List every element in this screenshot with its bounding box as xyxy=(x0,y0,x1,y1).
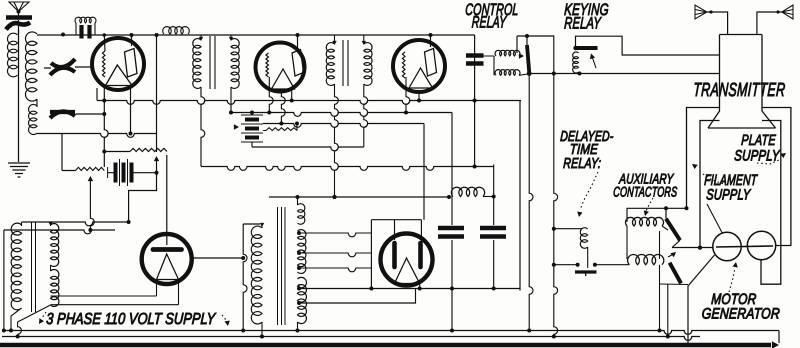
wire T4 sec drop xyxy=(296,322,300,333)
transformer T5 xyxy=(11,222,59,312)
wire grid V2 xyxy=(267,77,273,115)
tube V1 xyxy=(92,33,144,90)
antenna A3 xyxy=(757,5,793,35)
wire V4 plate xyxy=(166,155,168,245)
bus main bar xyxy=(0,341,779,348)
svg-text:SUPPLY: SUPPLY xyxy=(734,147,781,164)
arrow filament xyxy=(692,164,727,185)
svg-text:PLATE: PLATE xyxy=(741,131,777,148)
label AUXILIARY CONTACTORS xyxy=(613,171,678,200)
svg-text:RELAY: RELAY xyxy=(471,12,508,31)
wire T4 tap3 xyxy=(297,266,371,272)
inductor L5 xyxy=(451,187,493,196)
antenna A2 xyxy=(695,5,728,35)
wire cap feed xyxy=(473,35,477,167)
wire T4 pri top xyxy=(243,223,260,225)
wire out rail xyxy=(420,287,520,291)
wire fil V2 right xyxy=(290,89,294,103)
variable capacitor VC2 xyxy=(44,59,92,75)
grid capacitor C1 xyxy=(82,25,90,39)
svg-text:RELAY: RELAY xyxy=(564,13,603,32)
transformer T2 xyxy=(193,35,239,89)
wire V4 fil right xyxy=(51,280,179,305)
wire T4 sec bottom xyxy=(297,284,420,291)
battery B1 xyxy=(108,159,157,186)
tube V4 xyxy=(142,234,192,284)
wire xyxy=(18,30,20,162)
wire keying to tx xyxy=(576,36,720,55)
wire T4 riser xyxy=(297,197,299,205)
wire cap chain A xyxy=(450,113,454,333)
bus ground2 xyxy=(2,337,700,341)
ground xyxy=(8,163,30,177)
tube V2 xyxy=(256,43,305,92)
control relay armature xyxy=(517,34,554,76)
arrow supply right xyxy=(222,315,230,326)
bus supply1 xyxy=(22,222,129,226)
bus L3 bottom xyxy=(37,134,157,138)
wire T5 tap A xyxy=(50,265,52,271)
bus B2 y112 xyxy=(231,113,452,117)
wire MG down xyxy=(688,255,715,345)
arrow aux xyxy=(644,198,653,216)
wire T4 pri drop xyxy=(260,322,264,339)
wire to MG xyxy=(662,226,713,250)
tube V5 xyxy=(381,234,433,286)
motor generator xyxy=(713,231,776,260)
wire aux drop2 xyxy=(660,284,688,339)
svg-text:TRANSMITTER: TRANSMITTER xyxy=(693,79,786,100)
wire plate V3 xyxy=(429,33,433,47)
wire bias y147 xyxy=(252,147,364,151)
delayed time relay xyxy=(554,228,630,276)
label KEYING RELAY xyxy=(564,1,609,32)
tube V3 xyxy=(393,40,445,92)
arrow supply left xyxy=(39,312,46,324)
wire T5 pri bottom xyxy=(9,308,22,333)
label CONTROL RELAY xyxy=(465,0,519,31)
wire keying drop xyxy=(552,74,558,339)
arrow plate xyxy=(757,153,786,164)
transformer T3 xyxy=(326,35,372,86)
svg-text:3 PHASE 110 VOLT SUPPLY: 3 PHASE 110 VOLT SUPPLY xyxy=(46,311,217,329)
svg-text:GENERATOR: GENERATOR xyxy=(701,305,780,321)
resistor R2 xyxy=(104,148,167,151)
wire plate V2 xyxy=(296,33,300,48)
wire bus right end xyxy=(778,331,780,344)
aux contactor coil K2 xyxy=(628,255,664,265)
resistor R3 xyxy=(62,134,104,171)
wire V5 fil xyxy=(297,284,422,306)
plate supply box xyxy=(685,108,791,246)
keying relay xyxy=(573,46,598,73)
variable capacitor VC1 xyxy=(6,18,32,35)
wire plate V1 xyxy=(130,33,134,46)
label TRANSMITTER xyxy=(693,79,786,100)
label MOTOR GENERATOR xyxy=(701,291,780,322)
arrow delayed xyxy=(577,172,598,217)
wire bus drop xyxy=(519,101,521,291)
wire aux drop1 xyxy=(658,265,662,333)
wire T4 tap2 xyxy=(297,251,371,257)
antenna A1 xyxy=(9,2,29,16)
wire V4 fil left xyxy=(51,280,157,297)
wire top rail xyxy=(37,34,475,36)
wire cathode V1 xyxy=(129,88,133,136)
bus B1 y100 xyxy=(97,101,521,105)
wire T3 left bottom xyxy=(333,84,339,199)
wire armature drop xyxy=(527,75,533,333)
transformer T4 xyxy=(251,204,306,325)
resistor R4 xyxy=(263,122,299,131)
rf choke L4 xyxy=(163,27,190,34)
wire bias rail A xyxy=(201,165,494,171)
filament supply box xyxy=(698,121,781,285)
contact blade S1 xyxy=(666,208,680,240)
label PLATE SUPPLY xyxy=(734,131,781,164)
grid resistor R1 xyxy=(75,17,96,35)
wire aux feed xyxy=(627,206,687,222)
battery B2 xyxy=(234,111,263,148)
wire T4 tap1 xyxy=(297,231,371,237)
variable capacitor VC3 xyxy=(50,111,104,118)
wire cap chain B xyxy=(492,165,496,289)
bus B3 y123 xyxy=(263,124,424,128)
inductor L1 xyxy=(7,33,17,77)
label 3 PHASE 110 VOLT SUPPLY xyxy=(46,311,217,329)
wire rect rail xyxy=(269,195,451,199)
wire T3 right bottom xyxy=(364,84,368,147)
capacitor C2 xyxy=(466,56,484,64)
inductor L3 xyxy=(29,99,37,135)
wire grid V3 xyxy=(404,77,410,115)
arrow MG xyxy=(729,262,738,292)
wire fil V3 xyxy=(417,92,421,103)
wire cathode V1 left xyxy=(96,88,98,101)
node rail junction xyxy=(61,33,159,38)
control relay coils xyxy=(475,50,528,75)
contact blade S2 xyxy=(670,263,681,284)
arrow blade xyxy=(668,252,676,257)
label DELAYED-TIME RELAY xyxy=(560,128,614,171)
wire R3 tap xyxy=(88,176,95,232)
wire T2 sec bottom xyxy=(229,87,233,115)
wire V4 out xyxy=(191,224,248,333)
svg-text:SUPPLY: SUPPLY xyxy=(706,186,752,203)
wire fil V2 left xyxy=(279,89,285,126)
svg-text:CONTACTORS: CONTACTORS xyxy=(613,183,678,200)
transmitter box xyxy=(708,35,776,129)
wire supply left xyxy=(2,230,6,333)
capacitor C4 xyxy=(480,228,506,237)
wire T5 sec bottom xyxy=(16,305,51,339)
wire T2 pri bottom xyxy=(201,87,205,167)
bus supply2 xyxy=(4,230,115,234)
aux contactor coil K1 xyxy=(626,217,664,259)
svg-text:RELAY:: RELAY: xyxy=(563,154,602,171)
label FILAMENT SUPPLY xyxy=(704,171,759,203)
wire V5 anode rail xyxy=(369,124,424,291)
bus ground1 xyxy=(2,331,779,335)
wire relay common xyxy=(529,72,719,76)
capacitor C3 xyxy=(438,228,464,237)
wire plate feed down xyxy=(127,35,160,224)
wire grid lead V1 xyxy=(102,88,108,167)
inductor L2 xyxy=(25,32,37,101)
